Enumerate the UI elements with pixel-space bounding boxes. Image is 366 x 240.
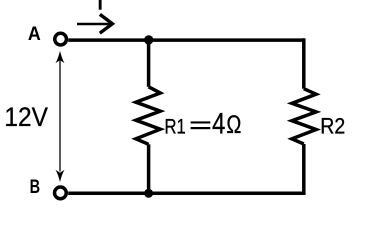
resistor R1 zigzag (136, 87, 160, 145)
svg-text:R1: R1 (165, 115, 186, 138)
wire R2 bottom lead down to bottom wire (302, 144, 306, 195)
wire top: terminal A to top-right corner (68, 38, 304, 42)
voltage arrow head up (56, 51, 65, 63)
current arrow shaft (77, 23, 110, 26)
voltage arrow head down (56, 170, 65, 182)
svg-text:12V: 12V (4, 102, 48, 132)
equals sign top bar (191, 121, 211, 123)
resistor R2 zigzag (292, 89, 316, 144)
voltage arrow shaft (59, 61, 61, 172)
wire bottom: terminal B to bottom-right corner (68, 192, 305, 196)
svg-text:B: B (30, 177, 41, 198)
svg-text:R2: R2 (320, 113, 345, 138)
wire R1 bottom lead to bottom wire (147, 144, 151, 193)
svg-text:A: A (28, 24, 41, 45)
wire right branch: corner down to R2 top lead (302, 38, 306, 88)
current arrow chevron head (100, 14, 113, 33)
svg-text:4: 4 (212, 107, 225, 140)
terminal A open circle (55, 33, 67, 45)
wire R1 top lead from top wire (147, 40, 151, 87)
terminal B open circle (55, 187, 67, 199)
junction dot top (R1 / top wire) (144, 35, 153, 44)
label I (clipped at top edge) (99, 0, 102, 10)
junction dot bottom (R1 / bottom wire) (144, 189, 153, 198)
svg-text:Ω: Ω (226, 112, 241, 139)
equals sign bottom bar (191, 127, 211, 129)
